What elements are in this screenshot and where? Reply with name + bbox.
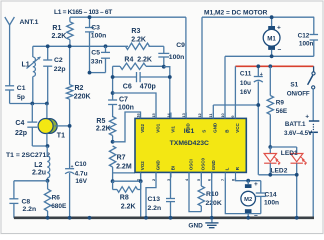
svg-text:C2: C2 [54, 57, 63, 64]
svg-text:S1: S1 [290, 82, 298, 89]
switch S1 [287, 66, 315, 97]
capacitor C3 [85, 17, 106, 72]
wire R10 bottom loop to pin4 [189, 172, 201, 211]
svg-text:10u: 10u [240, 80, 251, 87]
svg-text:R6: R6 [52, 194, 61, 201]
svg-text:−: − [278, 47, 282, 54]
svg-text:C10: C10 [75, 161, 87, 168]
wire pin7 to M2 loop [225, 178, 260, 214]
svg-text:R1: R1 [52, 25, 61, 32]
capacitor C1 [5, 85, 26, 104]
node C2/T1 [45, 102, 49, 106]
capacitor C8 [9, 181, 47, 218]
svg-text:T1: T1 [57, 133, 65, 140]
pin 11 (GND) [208, 113, 218, 133]
svg-text:T1 = 2SC2712: T1 = 2SC2712 [6, 152, 50, 159]
svg-text:C6: C6 [123, 84, 132, 91]
node C7 top / bus93 [111, 91, 115, 95]
wire pin9 column from red rail [234, 66, 236, 118]
svg-text:33n: 33n [91, 58, 103, 65]
svg-text:C8: C8 [22, 198, 31, 205]
node bus46/C2 [46, 44, 50, 48]
node R7/R8 [111, 179, 115, 183]
svg-text:ANT.1: ANT.1 [20, 19, 39, 26]
pin 12 (S) [197, 112, 207, 132]
svg-text:VO1: VO1 [155, 123, 160, 133]
svg-text:TXM6D423C: TXM6D423C [170, 140, 209, 147]
node C6 right / pin14 column [168, 75, 172, 79]
svg-text:5p: 5p [17, 94, 25, 101]
label T1 type [6, 152, 50, 159]
wire LED bottom rail [259, 175, 297, 218]
svg-text:R3: R3 [131, 28, 140, 35]
pin 9 (VCC) [230, 113, 240, 133]
node rail C10 [68, 216, 72, 220]
resistor R3 [126, 28, 150, 50]
svg-text:2.2n: 2.2n [23, 206, 37, 213]
svg-text:2.2K: 2.2K [121, 203, 136, 210]
svg-text:GND: GND [188, 223, 203, 230]
node LED2 bottom [268, 173, 272, 177]
pin 14 (VI1) [166, 112, 176, 132]
svg-text:M2: M2 [244, 197, 252, 203]
inductor L2 [32, 146, 50, 181]
node R4/C6 left [111, 75, 115, 79]
pin 5 (OSC0) [196, 158, 206, 181]
resistor R7 [109, 146, 131, 181]
capacitor C11 (electrolytic) [240, 66, 263, 175]
node rail R6 [46, 216, 50, 220]
wire pin1 node to ground rail [140, 181, 142, 218]
svg-text:100n: 100n [264, 200, 279, 207]
node rail C13 [169, 216, 173, 220]
wire pin13 column from top rail [185, 17, 187, 118]
node bus105/C11 column [256, 103, 260, 107]
node R9 on red rail [268, 64, 272, 68]
wire pin2 to ground rail [146, 172, 156, 217]
svg-text:R5: R5 [96, 118, 105, 125]
node L1/C4 [30, 102, 34, 106]
node rail pin6 [210, 216, 214, 220]
inductor L1 (variable) [22, 46, 41, 103]
node rail M2 [246, 216, 250, 220]
svg-text:100n: 100n [118, 104, 134, 111]
svg-text:R4: R4 [124, 56, 133, 63]
svg-text:VI1: VI1 [170, 126, 175, 133]
node C5/C3 ground column [88, 71, 92, 75]
wire R5 bottom to pin16 [113, 112, 141, 142]
pin 15 (VO1) [151, 112, 161, 132]
pin 4 (OSCI) [184, 159, 194, 181]
node bus46/C5 [104, 44, 108, 48]
svg-text:+: + [305, 114, 309, 121]
svg-text:M1: M1 [267, 35, 276, 42]
capacitor C13 [148, 172, 176, 217]
capacitor C6 [113, 72, 170, 91]
wire pin6 to ground rail [211, 172, 213, 217]
antenna ANT.1 [5, 17, 39, 86]
resistor R10 [198, 172, 222, 211]
svg-text:OSC0: OSC0 [201, 158, 206, 171]
svg-text:C7: C7 [119, 96, 128, 103]
capacitor C9 [158, 42, 185, 66]
node pin1/R8 [139, 179, 143, 183]
wire node to pin1 [113, 172, 141, 181]
svg-text:4.7u: 4.7u [75, 170, 88, 177]
pin 2 (GND) [151, 160, 161, 181]
node M1 bottom [270, 54, 274, 58]
svg-text:S: S [201, 130, 206, 133]
svg-text:+: + [254, 181, 258, 188]
node R9 / LED rail [268, 145, 272, 149]
svg-text:C4: C4 [15, 120, 24, 127]
svg-text:100n: 100n [299, 41, 314, 48]
wire bus105 (pin11/C11) [213, 105, 258, 118]
wire top rail right [202, 16, 314, 18]
pin 8 (R) [230, 166, 240, 181]
svg-text:2.2K: 2.2K [52, 33, 67, 40]
wire C9 node jog to pin14 [164, 67, 170, 119]
svg-text:OSCI: OSCI [188, 159, 193, 170]
capacitor C14 [256, 181, 279, 214]
node LED1 bottom [295, 173, 299, 177]
svg-text:7: 7 [220, 179, 225, 181]
svg-text:2.2K: 2.2K [137, 56, 152, 63]
node rail pin2 [144, 216, 148, 220]
label M1,M2 DC MOTOR [204, 10, 268, 17]
pin 7 (L) [220, 167, 230, 181]
svg-text:BATT.1: BATT.1 [285, 121, 306, 128]
wire node row y103 [10, 103, 47, 105]
node C9/R4 right [162, 65, 166, 69]
resistor R1 [52, 17, 74, 46]
node top rail / C3 [88, 15, 92, 19]
wire pin12 column from top rail [201, 17, 203, 118]
node R5/R7 [111, 140, 115, 144]
svg-text:220K: 220K [74, 94, 91, 101]
svg-text:C1: C1 [17, 85, 26, 92]
wire top rail left [70, 16, 186, 18]
battery BATT.1 [284, 89, 319, 218]
wire LED top rail [270, 146, 296, 148]
svg-text:ON/OFF: ON/OFF [287, 91, 310, 98]
svg-text:VDD: VDD [186, 123, 191, 133]
svg-text:470p: 470p [140, 84, 156, 91]
svg-text:R9: R9 [276, 99, 285, 106]
wire VCC red rail [235, 65, 313, 67]
svg-text:L2: L2 [34, 162, 42, 169]
svg-text:680E: 680E [51, 203, 67, 210]
motor M1 [263, 17, 281, 56]
svg-text:2.2M: 2.2M [116, 163, 132, 170]
svg-text:L1: L1 [22, 62, 30, 69]
svg-text:22p: 22p [15, 130, 27, 137]
svg-text:VD2: VD2 [140, 124, 145, 133]
svg-text:C9: C9 [176, 42, 185, 49]
svg-text:R2: R2 [75, 85, 84, 92]
svg-text:100n: 100n [169, 54, 185, 61]
resistor R6 [44, 181, 67, 218]
LED1 [281, 147, 307, 175]
wire node to IC corner [113, 172, 135, 174]
resistor R4 [113, 56, 164, 69]
svg-text:220K: 220K [206, 200, 222, 207]
svg-text:10: 10 [220, 113, 225, 117]
ground symbol GND [188, 219, 218, 230]
capacitor C4 [15, 104, 48, 147]
pin 13 (VDD) [181, 112, 191, 132]
pin 1 (VO2) [135, 161, 145, 181]
svg-text:BI: BI [170, 166, 175, 171]
svg-text:M1,M2 = DC MOTOR: M1,M2 = DC MOTOR [204, 10, 268, 17]
wire bus93 to pin15 [113, 93, 156, 118]
svg-text:GND: GND [211, 160, 216, 171]
node M1 top rail [270, 15, 274, 19]
svg-text:GND: GND [213, 122, 218, 133]
wire bus y46 [33, 45, 164, 47]
svg-text:L: L [225, 167, 230, 170]
svg-text:L1 = K165 – 103 – 6T: L1 = K165 – 103 – 6T [54, 9, 112, 16]
wire R4 left riser [112, 66, 114, 100]
capacitor C5 [90, 46, 111, 72]
svg-text:VO2: VO2 [140, 161, 145, 171]
transistor T1 [38, 104, 70, 147]
svg-text:2.2K: 2.2K [96, 126, 111, 133]
node T1 emitter [46, 144, 50, 148]
svg-text:22p: 22p [54, 66, 66, 73]
svg-text:C13: C13 [148, 196, 161, 203]
wire pin10 column [224, 56, 226, 118]
svg-text:+: + [277, 24, 281, 31]
wire M1 bottom rail [225, 55, 314, 57]
capacitor C12 [298, 17, 318, 56]
svg-text:C3: C3 [91, 24, 100, 31]
resistor R9 [267, 66, 288, 147]
svg-text:LED1: LED1 [281, 150, 298, 157]
pin 16 (VD2) [135, 112, 145, 132]
svg-text:LED2: LED2 [271, 167, 288, 174]
node T1 base / R2 [68, 124, 72, 128]
node M2 plus [246, 179, 250, 183]
svg-text:100n: 100n [91, 32, 107, 39]
svg-text:2.2u: 2.2u [32, 169, 46, 176]
svg-text:3.6V–4.5V: 3.6V–4.5V [284, 130, 313, 137]
wire pin8 to M2 [236, 178, 261, 181]
pin 3 (BI) [166, 166, 176, 181]
LED2 [264, 147, 288, 175]
node bus46/R2 [68, 44, 72, 48]
pin 10 (B) [220, 113, 230, 133]
svg-text:56E: 56E [276, 108, 288, 115]
node rail LED1 [295, 216, 299, 220]
label L1 formula [54, 9, 112, 16]
capacitor C7 [108, 96, 134, 117]
svg-text:+: + [260, 72, 263, 78]
resistor R8 [113, 181, 141, 210]
svg-text:C12: C12 [298, 32, 310, 39]
resistor R2 [66, 46, 90, 168]
node rail C3/C5 [88, 216, 92, 220]
svg-text:VCC: VCC [235, 123, 240, 133]
svg-text:C5: C5 [91, 49, 100, 56]
resistor R5 [96, 117, 116, 142]
svg-text:GND: GND [155, 160, 160, 171]
ground rail [14, 217, 314, 220]
motor M2 [241, 181, 258, 220]
capacitor C10 (electrolytic) [65, 161, 88, 218]
op-amp-style IC1 TXM6D423C body [135, 118, 246, 172]
svg-text:+: + [71, 165, 74, 170]
svg-text:R8: R8 [120, 194, 129, 201]
svg-text:16V: 16V [75, 178, 87, 185]
svg-text:2.2K: 2.2K [131, 36, 146, 43]
svg-text:R7: R7 [117, 155, 126, 162]
svg-text:C11: C11 [240, 71, 252, 78]
svg-text:16V: 16V [240, 89, 252, 96]
node L2/R6/C8 [46, 179, 50, 183]
svg-text:C14: C14 [265, 191, 277, 198]
capacitor C2 [43, 46, 65, 103]
node C11 on red rail [256, 64, 260, 68]
pin 6 (GND) [207, 160, 217, 181]
svg-text:2.2n: 2.2n [148, 205, 162, 212]
